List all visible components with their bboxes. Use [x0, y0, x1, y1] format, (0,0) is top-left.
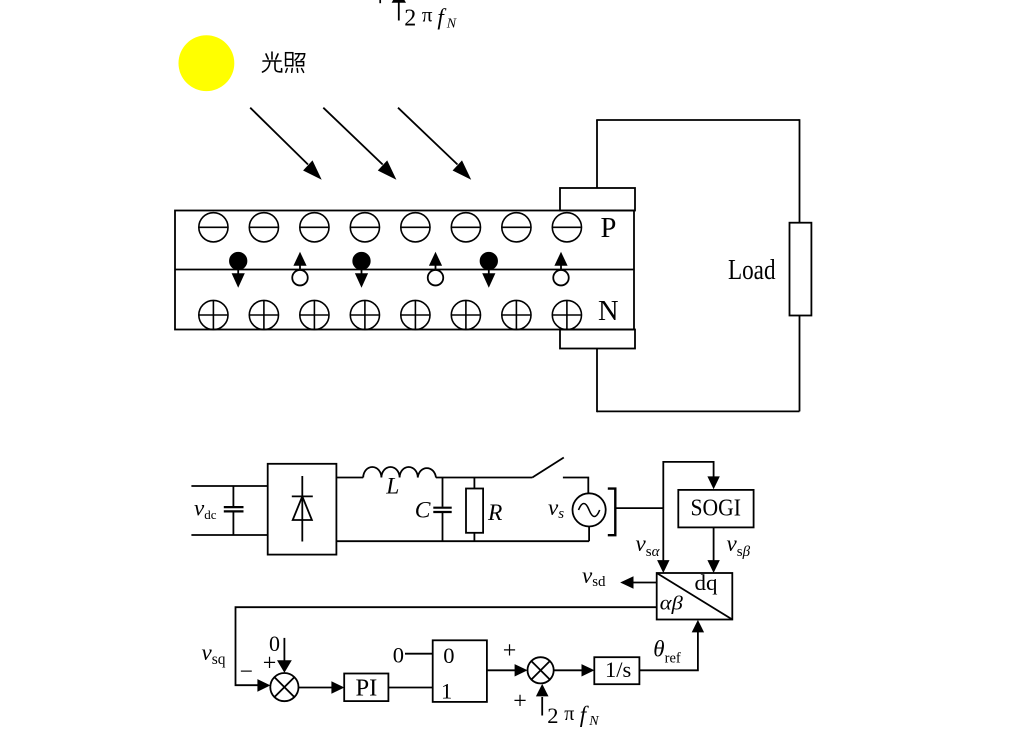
svg-text:1: 1 — [441, 678, 452, 703]
block integrator 1/s — [594, 657, 639, 684]
svg-text:P: P — [601, 213, 617, 244]
svg-text:N: N — [598, 296, 619, 327]
label 2 pi fN — [547, 702, 599, 729]
wire dc top — [191, 485, 267, 487]
block SOGI — [678, 490, 753, 528]
block PI — [344, 674, 388, 702]
wire inductor to switch — [436, 477, 532, 479]
wire top electrode to top rail — [596, 120, 598, 188]
svg-text:PI: PI — [356, 675, 378, 702]
svg-text:N: N — [446, 16, 457, 31]
light ray arrow 1 — [250, 108, 322, 180]
label guangzhao (light) char 1 — [263, 52, 282, 72]
arrowhead into integrator — [582, 664, 595, 676]
svg-text:2: 2 — [404, 6, 416, 32]
diode D1 — [292, 476, 313, 542]
wire vsd out left — [632, 582, 657, 584]
wire bottom electrode to bottom rail — [596, 349, 598, 413]
wire summer 1 to PI — [298, 687, 333, 689]
wire dc bottom — [191, 534, 267, 536]
svg-text:vsq: vsq — [202, 640, 226, 668]
svg-text:f: f — [580, 702, 590, 727]
capacitor C — [433, 478, 451, 542]
svg-text:C: C — [415, 497, 431, 523]
SECTION: power circuit — [191, 458, 615, 555]
arrowhead vsd — [620, 576, 633, 588]
SECTION: top cropped fragment — [380, 0, 457, 32]
svg-text:L: L — [385, 473, 399, 499]
wire top rail — [596, 119, 799, 121]
arrowhead theta_ref into dq — [692, 620, 704, 633]
cropped up arrow (2 pi fN input) — [392, 0, 406, 21]
electron 2 with down arrow — [353, 253, 370, 288]
svg-text:vsβ: vsβ — [727, 531, 751, 560]
positive ions row (N region) — [199, 300, 582, 329]
light ray arrow 3 — [398, 108, 471, 180]
svg-text:0: 0 — [393, 642, 404, 667]
wire PI to selector — [388, 687, 432, 689]
wire summer 2 to integrator — [554, 669, 583, 671]
arrowhead 2pifN — [536, 684, 549, 697]
hole 1 with up arrow — [292, 252, 308, 286]
svg-text:+: + — [503, 638, 517, 664]
PN junction line — [175, 269, 634, 271]
wire bottom rail — [597, 410, 800, 412]
wire 0 input to selector — [405, 653, 433, 655]
wire junction up and over to SOGI — [663, 462, 713, 508]
svg-text:SOGI: SOGI — [691, 495, 742, 522]
svg-text:vsd: vsd — [582, 563, 606, 590]
PV cell body — [175, 211, 634, 330]
SECTION: control blocks — [202, 462, 754, 729]
summer 2 (multiplier circle) — [528, 657, 554, 683]
wire right rail upper — [799, 119, 801, 223]
label 2 pi fN (top fragment) — [404, 3, 457, 32]
electron 1 with down arrow — [230, 253, 247, 288]
arrowhead into PI — [331, 681, 344, 693]
light ray arrow 2 — [323, 108, 396, 180]
wire zero ref down into summer 1 — [283, 638, 285, 662]
wire source bottom — [588, 527, 590, 542]
svg-text:−: − — [240, 659, 253, 685]
block dq/alphabeta — [657, 573, 733, 620]
wire selector to summer 2 — [487, 669, 516, 671]
wire right rail lower — [799, 316, 801, 412]
switch fixed contact wire — [563, 478, 588, 494]
arrowhead into summer 1 — [257, 679, 270, 692]
svg-text:θref: θref — [653, 637, 681, 667]
svg-text:+: + — [513, 688, 527, 714]
svg-text:π: π — [422, 3, 433, 27]
resistor Load — [790, 223, 812, 316]
cropped plus sign fragment — [379, 0, 381, 3]
svg-text:vsα: vsα — [636, 531, 661, 560]
label guangzhao (light) char 2 — [286, 53, 305, 73]
inverter box — [268, 464, 337, 555]
svg-text:1/s: 1/s — [605, 657, 631, 682]
arrowhead vs_alpha into dq block — [657, 560, 669, 573]
svg-text:vdc: vdc — [194, 496, 217, 522]
wire 2pifN up into summer 2 — [541, 697, 543, 716]
svg-text:vs: vs — [548, 495, 564, 522]
svg-text:+: + — [263, 651, 277, 677]
svg-text:Load: Load — [728, 255, 776, 286]
svg-text:π: π — [564, 703, 574, 725]
top electrode — [560, 188, 635, 211]
SECTION: load circuit — [596, 119, 811, 412]
SECTION: sun and rays — [179, 35, 472, 179]
capacitor Cdc — [224, 486, 244, 535]
arrowhead zero ref — [277, 660, 292, 673]
svg-text:2: 2 — [547, 703, 558, 728]
wire bottom rail power — [336, 540, 589, 542]
wire box to inductor — [336, 477, 363, 479]
electron 3 with down arrow — [481, 253, 498, 288]
resistor R — [466, 478, 483, 542]
arrowhead into SOGI top — [707, 476, 719, 489]
feedback wire vsq — [236, 607, 657, 685]
wire bracket to junction — [617, 507, 664, 509]
source vs circle — [573, 493, 606, 526]
svg-text:dq: dq — [695, 570, 718, 595]
inductor L — [363, 467, 436, 478]
svg-text:0: 0 — [443, 643, 454, 668]
negative ions row (P region) — [199, 213, 582, 242]
wire vs_alpha down — [662, 508, 664, 561]
source sine wave — [579, 504, 600, 517]
wire SOGI output down — [713, 527, 715, 561]
arrowhead vs_beta into dq block — [707, 560, 719, 573]
bottom electrode — [560, 330, 635, 349]
wire theta_ref to dq block — [639, 631, 698, 670]
arrowhead into summer 2 — [515, 664, 528, 676]
svg-text:N: N — [588, 714, 599, 729]
sun — [179, 35, 235, 91]
switch blade — [532, 458, 564, 478]
svg-text:R: R — [487, 500, 502, 526]
hole 2 with up arrow — [428, 252, 444, 286]
grid bracket — [608, 489, 616, 536]
SECTION: PV cell — [175, 188, 635, 349]
block selector 0/1 — [433, 640, 487, 702]
summer 1 (multiplier circle) — [270, 673, 298, 701]
svg-text:αβ: αβ — [660, 593, 683, 615]
hole 3 with up arrow — [553, 252, 569, 286]
